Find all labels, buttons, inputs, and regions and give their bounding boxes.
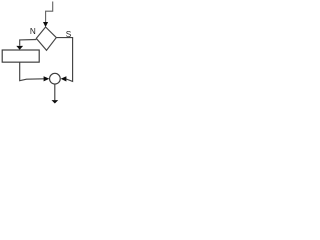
arrowhead into diamond top [43, 22, 48, 27]
arrowhead exit bottom [52, 100, 59, 103]
arrowhead into circle right [61, 76, 67, 81]
wire rect exit down-right [20, 62, 44, 80]
arrowhead into circle left [44, 76, 50, 81]
wire S branch right-down [56, 38, 72, 82]
process rectangle [2, 50, 39, 62]
svg-text:N: N [30, 27, 36, 36]
wire exit bottom [54, 84, 56, 100]
flowchart fragment [0, 0, 77, 110]
connector circle [50, 73, 61, 84]
wire N branch left-down [20, 40, 37, 46]
decision diamond [36, 27, 56, 50]
wire entry jog top [46, 2, 53, 23]
arrowhead into rectangle top [16, 46, 23, 50]
